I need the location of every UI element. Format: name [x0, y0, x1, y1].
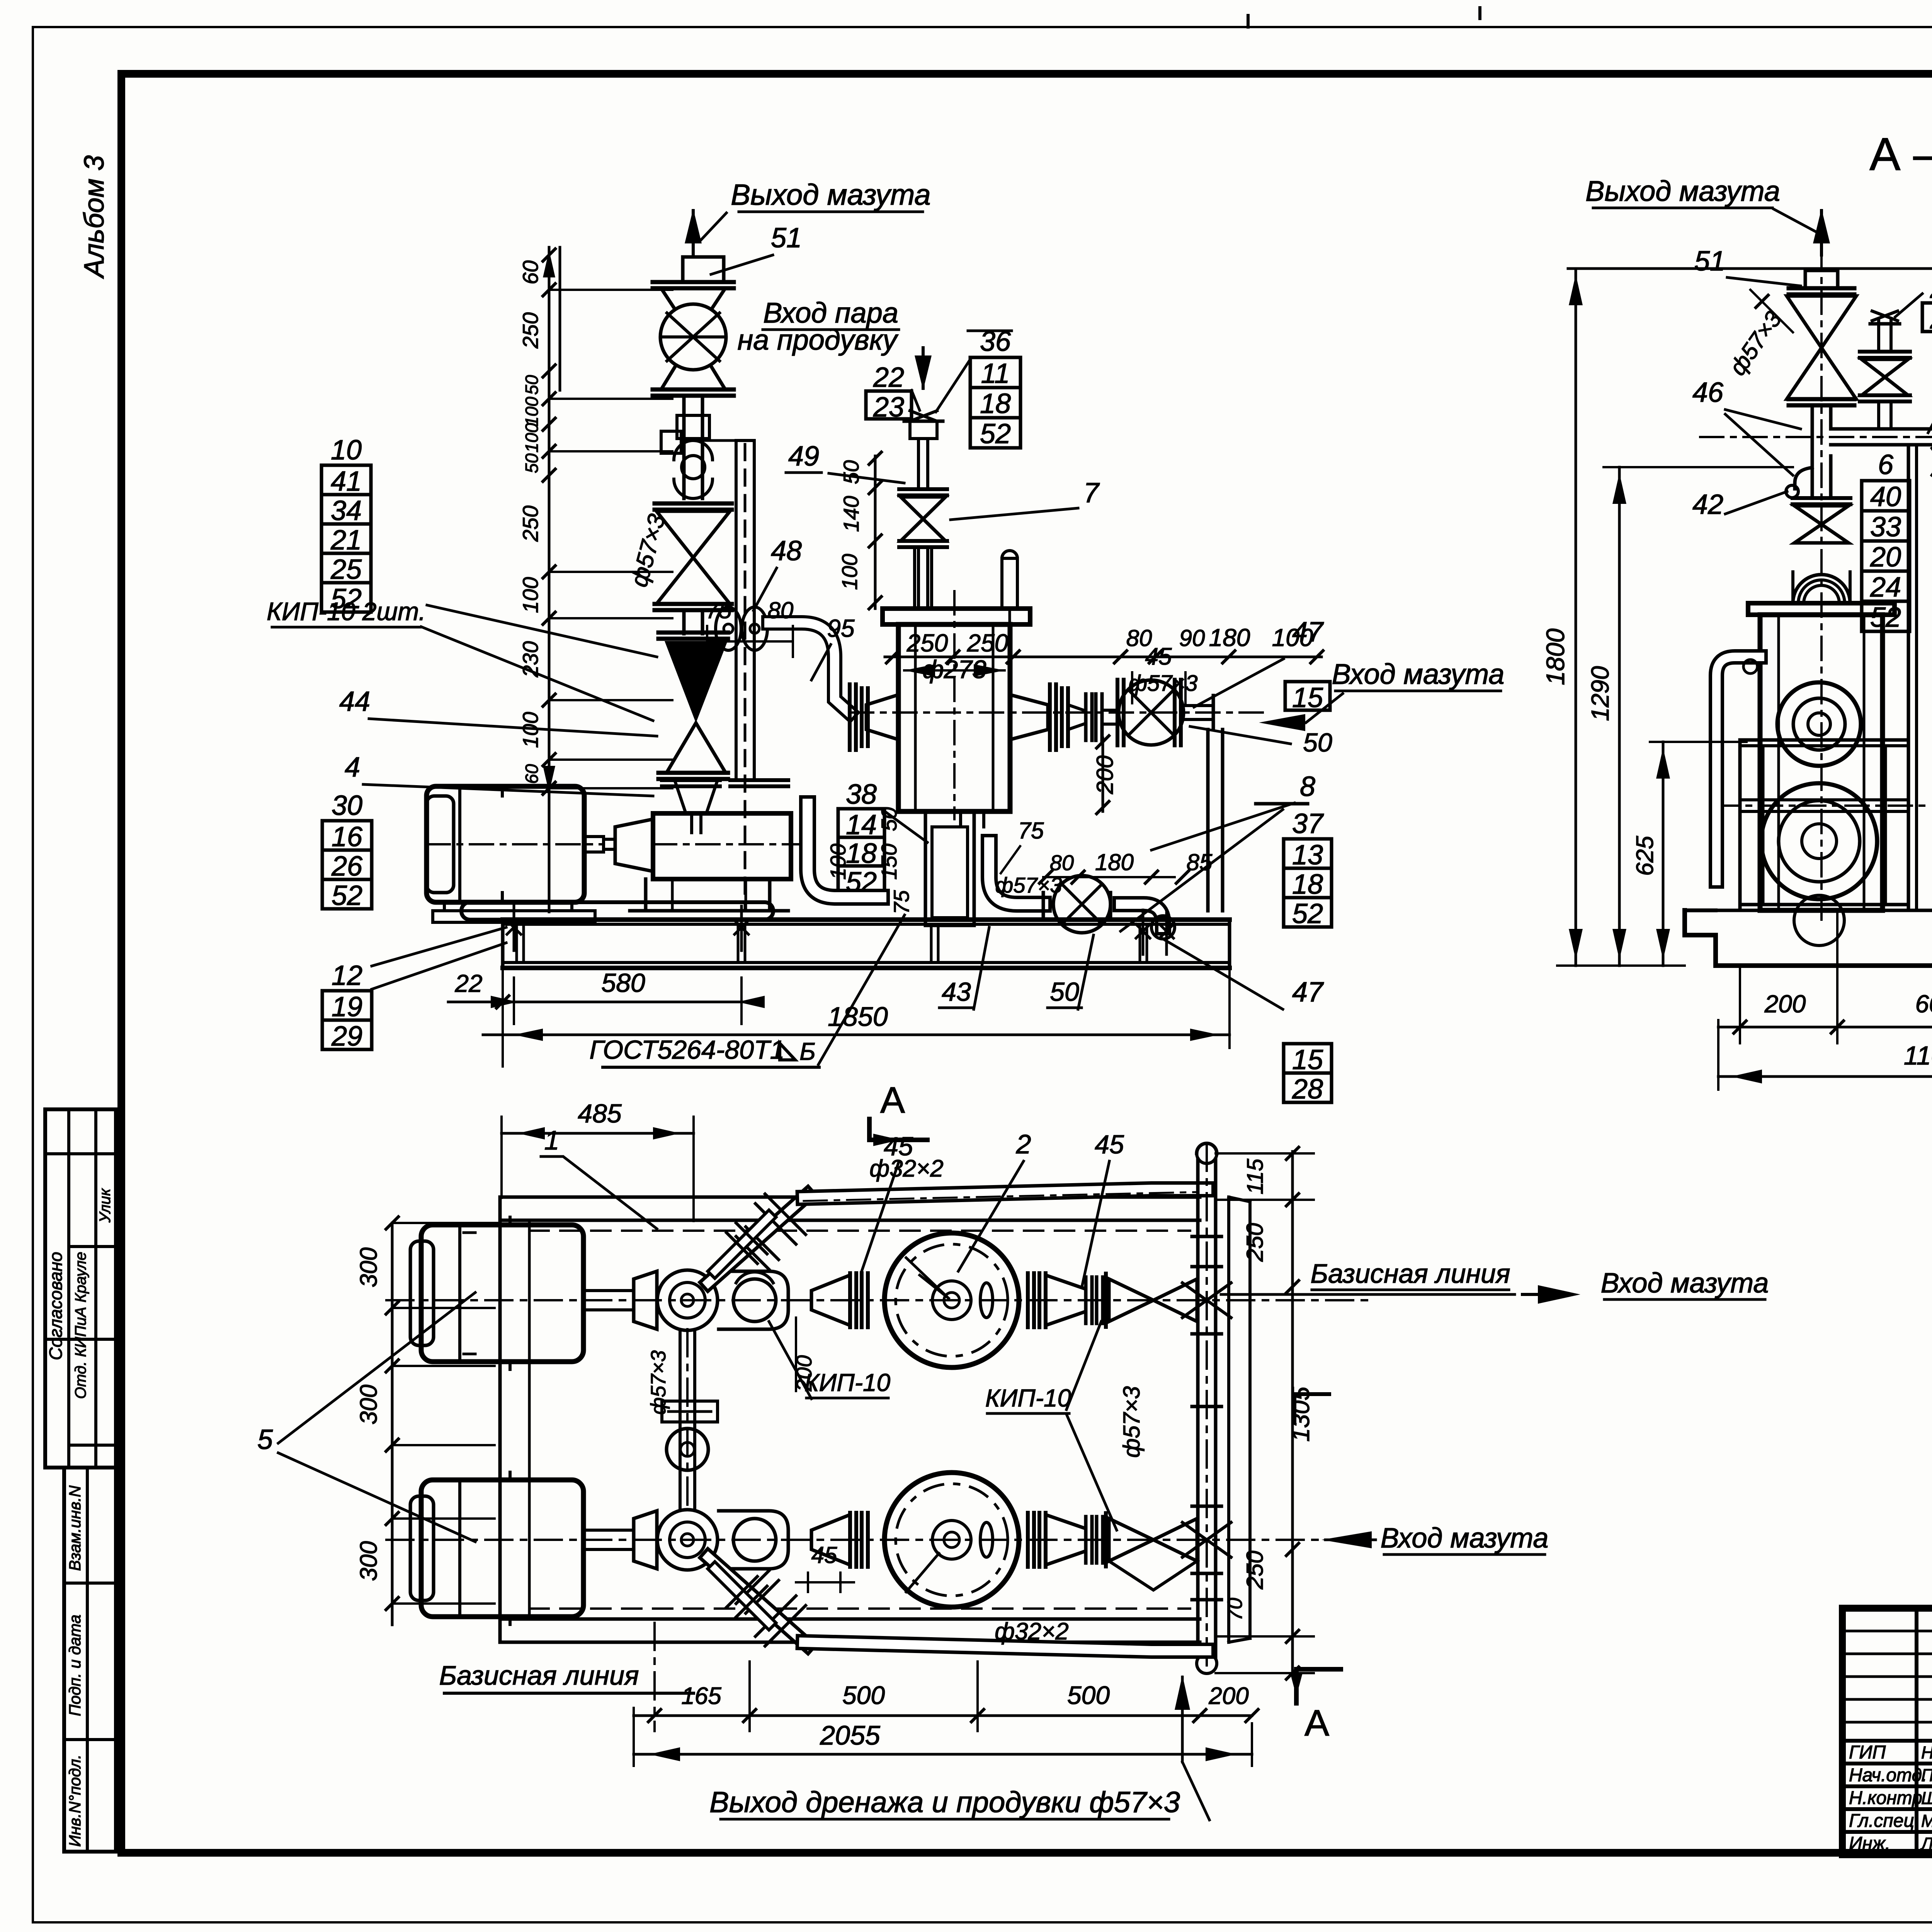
KIP diagonal bottom small	[715, 1569, 769, 1623]
filter vessel	[883, 609, 1030, 624]
svg-text:95: 95	[827, 614, 855, 642]
left stamp lower	[64, 1468, 116, 1852]
svg-text:Вход мазута: Вход мазута	[1601, 1268, 1769, 1299]
pot outlet elbow	[989, 842, 1043, 904]
pump pedestal	[644, 879, 648, 911]
riser pipe behind	[735, 440, 738, 780]
top pump circles	[657, 1270, 718, 1330]
bottom pump circles	[657, 1510, 718, 1570]
svg-text:ГИП: ГИП	[1849, 1742, 1886, 1763]
top motor-pump shaft	[583, 1289, 634, 1292]
top discharge diagonal	[708, 1195, 808, 1283]
svg-text:100: 100	[522, 396, 542, 426]
svg-text:Выход мазута: Выход мазута	[731, 179, 930, 211]
svg-text:43: 43	[942, 977, 971, 1007]
svg-text:Инж.: Инж.	[1849, 1833, 1890, 1854]
globe valve V1	[661, 288, 725, 337]
steam nozzle on vessel top	[913, 549, 916, 609]
svg-text:180: 180	[1209, 624, 1250, 651]
elbow from KIP to vessel branch	[769, 623, 850, 713]
svg-text:13: 13	[1292, 840, 1323, 871]
header X tops	[1182, 1283, 1231, 1318]
baseplate view1	[461, 902, 773, 920]
axes dash-dot	[386, 1299, 1368, 1301]
svg-text:18: 18	[980, 388, 1011, 419]
svg-text:А: А	[1304, 1702, 1329, 1744]
svg-text:ГОСТ5264-80Т1: ГОСТ5264-80Т1	[590, 1035, 785, 1065]
drawing frame	[121, 70, 1932, 78]
svg-text:5: 5	[257, 1424, 273, 1455]
svg-text:КИП-10: КИП-10	[985, 1384, 1071, 1412]
side tap	[661, 431, 681, 453]
vessel top plate	[1748, 603, 1895, 615]
svg-text:29: 29	[331, 1021, 362, 1052]
coupling and pump	[584, 837, 604, 852]
vessel bottom outlet and pot	[959, 811, 962, 827]
flanges at pump nozzles	[662, 778, 720, 782]
middle connection between pumps	[679, 1330, 682, 1510]
bottom filter connections	[848, 1513, 852, 1567]
svg-text:ф57×3: ф57×3	[1119, 1386, 1145, 1458]
svg-text:22: 22	[454, 969, 482, 997]
svg-text:485: 485	[578, 1099, 622, 1128]
svg-text:500: 500	[842, 1681, 885, 1709]
title block main	[1842, 1608, 1932, 1855]
bottom discharge diagonal	[708, 1557, 808, 1645]
bottom dims view1	[448, 1001, 746, 1003]
svg-text:1290: 1290	[1586, 666, 1614, 721]
top motor	[421, 1225, 583, 1362]
svg-text:36: 36	[980, 326, 1011, 357]
bottom shaft	[583, 1529, 634, 1532]
svg-text:Вход мазута: Вход мазута	[1332, 658, 1505, 690]
svg-text:250: 250	[1242, 1551, 1268, 1590]
svg-text:115: 115	[1243, 1158, 1268, 1194]
mid-right corner bracket	[1293, 1394, 1296, 1422]
svg-text:18: 18	[1292, 869, 1323, 900]
svg-text:49: 49	[788, 441, 819, 472]
anchor marks	[507, 920, 521, 934]
svg-text:50: 50	[1303, 728, 1332, 757]
skid outline	[500, 1196, 1200, 1199]
svg-text:Гл.спец.: Гл.спец.	[1849, 1811, 1919, 1831]
check valve (filled)	[682, 611, 686, 634]
KIP instrument valves 48	[716, 607, 741, 650]
left riser below manifold	[1811, 456, 1814, 498]
bottom header pipe	[804, 1642, 1207, 1651]
top header pipe	[804, 1189, 1207, 1198]
svg-text:Улик: Улик	[97, 1188, 114, 1223]
svg-text:80: 80	[1050, 850, 1074, 875]
svg-text:47: 47	[1292, 617, 1324, 648]
svg-text:580: 580	[601, 968, 645, 998]
motor feet	[443, 902, 446, 911]
middle standpipes	[1907, 445, 1910, 910]
svg-text:90: 90	[1179, 625, 1205, 651]
small valve on vessel	[1793, 496, 1850, 500]
bottom dim chain	[634, 1714, 1252, 1717]
svg-text:30: 30	[332, 790, 362, 821]
svg-text:А: А	[880, 1080, 905, 1121]
vessel frame lines	[1740, 738, 1908, 742]
sheet outer border	[33, 26, 1932, 28]
svg-text:22: 22	[873, 362, 904, 393]
manifold pipe	[1831, 427, 1932, 431]
svg-text:600: 600	[1915, 990, 1932, 1018]
svg-text:52: 52	[1292, 898, 1323, 929]
svg-text:48: 48	[771, 536, 802, 566]
motor	[427, 786, 584, 902]
left U pipe	[1716, 657, 1760, 881]
svg-text:Согласовано: Согласовано	[46, 1252, 66, 1361]
small mid valve	[1877, 321, 1880, 352]
svg-text:47: 47	[1292, 977, 1324, 1008]
svg-text:250: 250	[906, 629, 948, 657]
svg-text:22: 22	[1930, 273, 1932, 304]
outlet arrow and label	[692, 211, 695, 255]
top filter connections	[848, 1273, 852, 1327]
svg-text:26: 26	[331, 851, 363, 882]
valve L1	[1787, 296, 1856, 348]
svg-text:75: 75	[1018, 818, 1044, 844]
bottom dims AA	[1718, 1026, 1932, 1029]
svg-text:ф32×2: ф32×2	[869, 1155, 943, 1182]
svg-text:6: 6	[1878, 449, 1894, 480]
funnel to pump	[674, 779, 718, 813]
svg-text:150: 150	[877, 844, 901, 879]
svg-text:50: 50	[1050, 977, 1079, 1007]
svg-text:8: 8	[1300, 771, 1315, 802]
svg-text:60: 60	[522, 764, 542, 784]
svg-text:41: 41	[331, 466, 362, 497]
svg-text:625: 625	[1632, 836, 1658, 876]
drain elbow right	[1121, 904, 1163, 927]
svg-text:25: 25	[330, 554, 362, 585]
svg-text:250: 250	[518, 505, 543, 542]
svg-text:Нидбальский: Нидбальский	[1921, 1743, 1932, 1762]
svg-text:2055: 2055	[820, 1720, 881, 1750]
svg-text:2: 2	[1016, 1129, 1031, 1159]
svg-text:100: 100	[837, 554, 862, 590]
svg-text:7: 7	[1083, 478, 1100, 509]
svg-text:75: 75	[706, 597, 732, 623]
svg-text:20: 20	[1870, 542, 1901, 573]
svg-text:Выход дренажа и продувки ф57×3: Выход дренажа и продувки ф57×3	[709, 1786, 1180, 1819]
svg-text:100: 100	[826, 844, 850, 879]
dim chain steam valve	[874, 456, 877, 609]
svg-text:Лихачева: Лихачева	[1920, 1834, 1932, 1854]
svg-text:4: 4	[345, 752, 360, 783]
top valve bowtie plan	[1109, 1279, 1153, 1321]
svg-text:24: 24	[1870, 572, 1901, 603]
svg-text:50: 50	[877, 807, 901, 831]
svg-text:А – А: А – А	[1869, 128, 1932, 180]
svg-text:15: 15	[1292, 1044, 1323, 1075]
svg-text:19: 19	[332, 992, 362, 1022]
svg-text:52: 52	[332, 880, 362, 911]
svg-text:1: 1	[544, 1125, 560, 1155]
svg-text:10: 10	[331, 435, 362, 466]
svg-text:Шнитко: Шнитко	[1921, 1788, 1932, 1808]
bottom motor	[421, 1480, 583, 1617]
svg-text:Меерзан: Меерзан	[1921, 1811, 1932, 1831]
svg-text:на продувку: на продувку	[737, 324, 898, 356]
svg-text:44: 44	[339, 686, 370, 717]
svg-text:50: 50	[839, 460, 863, 484]
svg-text:КИП-10: КИП-10	[804, 1369, 891, 1396]
svg-text:300: 300	[355, 1384, 382, 1424]
support post right	[1206, 730, 1210, 911]
left dim chains AA	[1575, 269, 1577, 966]
svg-text:Подп. и дата: Подп. и дата	[66, 1615, 84, 1716]
right rotated dims	[1291, 1151, 1294, 1673]
svg-text:Инв.N°подл.: Инв.N°подл.	[66, 1755, 84, 1847]
svg-text:300: 300	[355, 1247, 382, 1287]
svg-text:12: 12	[332, 960, 362, 991]
svg-text:38: 38	[846, 779, 877, 810]
svg-text:11: 11	[981, 358, 1010, 389]
lower inlet label	[1321, 1531, 1372, 1548]
header flanges	[1192, 1235, 1221, 1238]
svg-text:1800: 1800	[1541, 628, 1570, 685]
svg-text:200: 200	[1764, 990, 1806, 1018]
svg-text:21: 21	[330, 525, 362, 556]
bottom valve bowtie plan	[1109, 1519, 1153, 1561]
vessel body	[1760, 615, 1883, 910]
svg-text:45: 45	[811, 1542, 837, 1568]
svg-text:200: 200	[1092, 755, 1118, 794]
svg-text:80: 80	[768, 597, 794, 623]
inlet valve V5	[1116, 680, 1119, 745]
svg-text:100: 100	[518, 577, 543, 613]
svg-text:52: 52	[980, 418, 1011, 449]
top nozzle	[683, 257, 724, 282]
svg-text:50: 50	[522, 375, 542, 395]
pump discharge elbow	[808, 804, 881, 897]
drain valve circle	[1053, 876, 1111, 933]
svg-text:165: 165	[681, 1683, 721, 1709]
vessel right branch	[1010, 695, 1048, 740]
left dim chain	[548, 247, 551, 912]
svg-text:42: 42	[1692, 489, 1723, 520]
svg-text:70: 70	[1223, 1598, 1247, 1621]
dome arcs	[1793, 575, 1850, 603]
svg-text:Отд. КИПиА Крауле: Отд. КИПиА Крауле	[72, 1252, 89, 1399]
union hub	[674, 440, 713, 460]
svg-text:Альбом 3: Альбом 3	[79, 155, 110, 279]
svg-text:50: 50	[522, 453, 542, 473]
svg-text:ф57×3: ф57×3	[1128, 671, 1197, 696]
svg-text:200: 200	[1208, 1683, 1248, 1709]
svg-text:ф32×2: ф32×2	[995, 1618, 1068, 1645]
vessel circles	[1777, 682, 1861, 766]
svg-text:Н.контр: Н.контр	[1849, 1788, 1922, 1808]
callout 12 leader	[372, 927, 506, 966]
KIP diagonal top small	[715, 1217, 769, 1271]
svg-text:40: 40	[1870, 481, 1901, 512]
svg-text:ф57×3: ф57×3	[647, 1350, 670, 1415]
top filter plan	[884, 1233, 1019, 1367]
svg-text:КИП-10 2шт.: КИП-10 2шт.	[267, 597, 426, 626]
svg-text:Выход мазута: Выход мазута	[1585, 175, 1780, 207]
svg-text:51: 51	[771, 223, 802, 253]
dim 200	[1102, 738, 1104, 811]
left stamp upper	[45, 1109, 116, 1468]
svg-text:28: 28	[1292, 1074, 1323, 1105]
svg-text:Взам.инв.N: Взам.инв.N	[66, 1485, 84, 1571]
steam inlet valve assembly	[922, 348, 925, 388]
svg-text:33: 33	[1870, 512, 1901, 543]
svg-text:16: 16	[332, 821, 363, 852]
drain boss 42	[1795, 468, 1812, 489]
485 dim	[502, 1132, 694, 1135]
svg-text:250: 250	[967, 629, 1009, 657]
svg-text:80: 80	[1126, 625, 1152, 651]
svg-text:100: 100	[522, 423, 542, 452]
top reference line	[1568, 267, 1932, 270]
svg-text:1850: 1850	[828, 1002, 888, 1032]
svg-text:Б: Б	[799, 1037, 816, 1065]
left 300 dims	[391, 1223, 394, 1625]
svg-text:180: 180	[1095, 849, 1134, 875]
svg-text:51: 51	[1694, 246, 1725, 277]
right header vertical	[1196, 1159, 1200, 1658]
svg-text:250: 250	[1242, 1223, 1268, 1262]
svg-text:37: 37	[1292, 808, 1324, 839]
vessel top dims	[885, 656, 1321, 658]
gate valve V2	[655, 502, 732, 506]
left riser top nozzle	[1805, 270, 1838, 288]
base section AA	[1685, 910, 1932, 966]
svg-text:45: 45	[1095, 1130, 1124, 1159]
svg-text:34: 34	[331, 495, 362, 526]
svg-text:75: 75	[889, 890, 913, 914]
inlet label	[1259, 714, 1305, 731]
pipe spool	[682, 396, 686, 437]
svg-text:Базисная линия: Базисная линия	[439, 1660, 639, 1690]
svg-text:60: 60	[518, 260, 543, 284]
svg-text:1104: 1104	[1904, 1041, 1932, 1070]
svg-text:Нач.отд.: Нач.отд.	[1849, 1765, 1927, 1786]
vessel left branch	[866, 695, 898, 740]
svg-text:250: 250	[518, 312, 543, 349]
svg-text:500: 500	[1067, 1681, 1110, 1709]
thermowell	[1002, 558, 1017, 609]
svg-text:140: 140	[839, 496, 863, 532]
svg-text:300: 300	[355, 1541, 382, 1581]
svg-text:Базисная линия: Базисная линия	[1311, 1259, 1510, 1289]
svg-text:Попов: Попов	[1921, 1765, 1932, 1785]
svg-text:Вход мазута: Вход мазута	[1381, 1523, 1549, 1554]
skid right end	[1227, 1197, 1230, 1642]
bottom filter plan	[884, 1473, 1019, 1607]
svg-text:46: 46	[1692, 377, 1724, 408]
